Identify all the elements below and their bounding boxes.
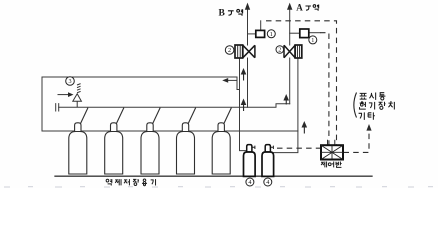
wire: A valve right drop pipe: [272, 58, 298, 153]
arrow A right pipe: [302, 121, 308, 128]
wire: flow arrow left on pilot line: [227, 79, 237, 81]
wire: pilot top line: [42, 77, 240, 90]
wire: left vertical: [41, 77, 43, 131]
node label 1 (solenoid B): [267, 30, 275, 38]
storage cylinders x5: [69, 108, 232, 174]
svg-text:2: 2: [228, 47, 231, 54]
wire: A solenoid connector: [290, 32, 300, 34]
selector valve B (zone B): [235, 45, 255, 58]
arrow B pipe upper: [241, 68, 247, 75]
svg-text:2: 2: [278, 47, 281, 54]
dashed line panel to devices: [344, 128, 370, 152]
safety valve assembly: [58, 84, 82, 108]
svg-text:B: B: [219, 9, 226, 19]
wire: B solenoid stub: [260, 21, 262, 31]
net label A zone: [296, 3, 318, 13]
arrow pilot-line left: [222, 78, 228, 83]
solenoid box B: [256, 30, 265, 37]
faint cropped caption row at bottom: [4, 186, 433, 188]
wire: A riser: [289, 10, 291, 46]
svg-text:4: 4: [248, 179, 251, 186]
wire: A valve left drop pipe: [289, 58, 291, 104]
node label 2 (valve B): [225, 46, 234, 55]
wire: B valve right drop pipe: [247, 58, 249, 107]
arrow B pipe lower: [241, 99, 247, 106]
arrow A riser: [287, 3, 292, 10]
svg-text:1: 1: [270, 31, 273, 38]
wire: ground line: [55, 175, 372, 177]
cylinder 1: [69, 108, 88, 174]
svg-text:A: A: [296, 3, 303, 13]
node cap: [56, 104, 59, 111]
wire: manifold: [59, 104, 290, 108]
cylinder 4: [177, 108, 196, 174]
svg-text:4: 4: [266, 179, 269, 186]
dashed line bottle2 to panel: [277, 147, 321, 149]
control panel: [321, 140, 343, 160]
wire: long low pilot line: [42, 130, 298, 132]
pilot bottle 2: [262, 145, 274, 177]
device list text (indicator lamp / ventilation / etc): [354, 93, 395, 120]
svg-text:1: 1: [311, 37, 314, 44]
dashed control lines: [266, 21, 369, 153]
cylinder 2: [105, 108, 124, 174]
node label 2 (valve A): [276, 46, 284, 54]
node label 3 (safety valve): [66, 77, 75, 86]
pilot bottle 1: [244, 145, 256, 177]
net label B zone: [219, 9, 243, 19]
solenoid box A: [300, 29, 309, 38]
arrow B riser: [245, 3, 250, 10]
cylinder 5: [212, 108, 231, 174]
arrow A manifold entry: [283, 94, 289, 101]
dashed line solenoid B to panel: [266, 21, 337, 145]
flow arrows: [222, 3, 307, 134]
wire: B riser: [247, 10, 249, 46]
selector valve A (zone A): [284, 45, 302, 58]
node label 1 (solenoid A): [309, 36, 317, 44]
cylinder 3: [141, 108, 160, 174]
dashed line solenoid A to panel: [320, 33, 329, 146]
svg-text:3: 3: [68, 78, 71, 85]
wire: B valve left drop pipe: [240, 58, 247, 151]
storage containers label: [106, 179, 155, 186]
node label 4 (bottle 2): [264, 178, 272, 186]
control panel label: [321, 161, 342, 167]
wire: B solenoid connector: [248, 33, 256, 35]
arrow to devices: [366, 124, 371, 131]
node label 4 (bottle 1): [246, 178, 254, 186]
wire: A solenoid line right: [309, 32, 320, 34]
